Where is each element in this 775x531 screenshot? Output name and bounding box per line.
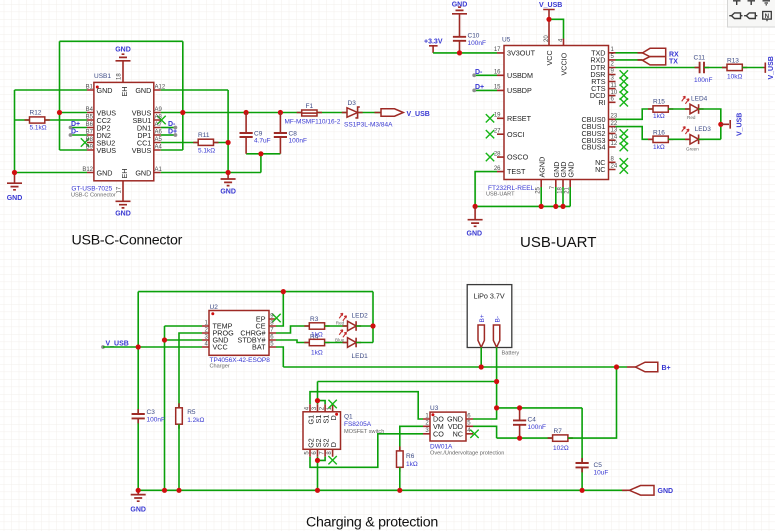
wire A9 VBUS rail (161, 112, 303, 114)
junction TEMP gnd rail (162, 488, 167, 493)
wire C5 column (581, 408, 583, 490)
svg-text:VCC: VCC (213, 343, 228, 352)
svg-text:D-: D- (475, 69, 483, 76)
svg-text:R6: R6 (406, 453, 415, 460)
wire B4 VBUS (60, 112, 88, 114)
svg-text:B+: B+ (479, 314, 486, 322)
wire D3 to V_USB flag (358, 112, 381, 114)
svg-text:10kΩ: 10kΩ (727, 74, 742, 81)
wire top V_USB rail (138, 291, 373, 293)
no-connect CBUS3 (620, 136, 628, 144)
wire LED3 cathode (699, 138, 721, 140)
svg-text:C10: C10 (468, 33, 480, 40)
svg-text:B8: B8 (86, 137, 94, 143)
svg-text:B4: B4 (86, 107, 94, 113)
svg-text:TX: TX (669, 59, 678, 66)
ground GND bottom of USB1 (116, 201, 131, 208)
svg-text:A4: A4 (155, 145, 163, 151)
resistor R16 (648, 138, 673, 140)
svg-text:C9: C9 (254, 130, 263, 137)
svg-text:R12: R12 (30, 110, 42, 117)
svg-text:USB1: USB1 (94, 73, 111, 80)
USB1 pin stubs left (87, 90, 94, 173)
wire LED4 to V_USB column (699, 109, 721, 139)
svg-text:MOSFET switch: MOSFET switch (344, 429, 384, 435)
wire B+ rail (283, 366, 627, 368)
wire CBUS1 to R16 (616, 127, 654, 140)
resistor R15 (648, 108, 673, 110)
toolbar icon vcc 2 (748, 1, 756, 5)
wire R15 to LED4 (668, 108, 690, 110)
wire A5 CC1 to R11 (161, 142, 228, 144)
wire U3 VDD to C4 bottom rail (473, 426, 497, 438)
svg-text:N: N (765, 13, 770, 20)
junction rail GND18 (560, 204, 565, 209)
junction cap rail (258, 151, 263, 156)
svg-text:A1: A1 (155, 167, 163, 173)
resistor R12 (25, 119, 50, 121)
wire B- rail (318, 381, 497, 383)
wire cap rail to A1 (260, 154, 262, 173)
svg-text:NC: NC (595, 165, 605, 174)
LED3 (685, 138, 704, 140)
wire A6 D+ (161, 134, 176, 136)
svg-text:VBUS: VBUS (132, 146, 152, 155)
svg-text:B12: B12 (82, 167, 93, 173)
svg-text:MF-MSMF110/16-2: MF-MSMF110/16-2 (285, 119, 341, 126)
junction S1 (315, 398, 320, 403)
wire left VBUS vertical (59, 41, 61, 150)
wire A12 GND (161, 89, 228, 91)
svg-text:12: 12 (611, 141, 618, 147)
resistor R7 (548, 437, 573, 439)
junction V_USB tap (718, 122, 723, 127)
wire CHRG# to R3 (276, 326, 309, 333)
toolbar icon gnd (763, 1, 771, 5)
battery pin B- (493, 325, 499, 347)
svg-text:R13: R13 (727, 57, 739, 64)
svg-text:18: 18 (557, 186, 563, 193)
svg-text:C3: C3 (147, 409, 156, 416)
svg-text:100nF: 100nF (694, 77, 712, 84)
fuse F1 (297, 112, 322, 114)
svg-text:C5: C5 (594, 462, 603, 469)
wire R16 to LED3 (668, 138, 690, 140)
U2 pin stubs right (269, 319, 276, 347)
U3 pin stubs left (423, 419, 430, 434)
svg-text:RESET: RESET (507, 114, 532, 123)
svg-text:4.7uF: 4.7uF (254, 138, 271, 145)
capacitor C9 (245, 113, 247, 154)
svg-text:10: 10 (611, 90, 618, 96)
toolbar icon netport1 (729, 13, 742, 19)
wire A7 D- (161, 127, 176, 129)
no-connect RTS (620, 77, 628, 85)
resistor R13 (722, 67, 747, 69)
svg-text:GND: GND (7, 195, 23, 202)
svg-text:GND: GND (566, 162, 575, 178)
wire GND21 pin down (569, 187, 571, 206)
IC U5 box (504, 46, 609, 180)
toolbar icon vcc 1 (733, 1, 741, 5)
svg-text:R7: R7 (554, 428, 563, 435)
junction C4 bottom (517, 436, 522, 441)
wire C4 top rail (497, 407, 582, 409)
wire A4 (161, 149, 183, 151)
svg-text:V_USB: V_USB (539, 2, 562, 9)
IC USB1 box (94, 82, 154, 180)
no-connect RESET (486, 114, 494, 122)
svg-text:EH: EH (120, 87, 129, 97)
wire LED cathode column (372, 292, 374, 343)
wire STDBY# to R4 (276, 340, 309, 343)
junction A9 (180, 110, 185, 115)
svg-text:VCC: VCC (545, 50, 554, 65)
svg-text:D+: D+ (168, 129, 177, 136)
svg-text:U3: U3 (430, 405, 439, 412)
junction C10 (457, 50, 462, 55)
svg-text:B-: B- (494, 316, 501, 323)
wire C4 bottom rail to R7 (497, 437, 553, 439)
wire B9 VBUS (60, 149, 88, 151)
junction CE rail (281, 289, 286, 294)
svg-text:A5: A5 (155, 137, 163, 143)
svg-text:26: 26 (494, 166, 501, 172)
svg-text:Red: Red (687, 115, 696, 120)
junction VCC (546, 17, 551, 22)
svg-text:Charging & protection: Charging & protection (306, 515, 438, 531)
svg-text:USB-C-Connector: USB-C-Connector (72, 233, 183, 249)
svg-text:USB-UART: USB-UART (520, 234, 596, 251)
svg-text:USB-C Connector: USB-C Connector (71, 193, 116, 199)
supply V_USB right rotated (764, 63, 766, 73)
svg-text:GND: GND (467, 230, 483, 237)
node D- left (69, 133, 73, 137)
node D- right (174, 126, 178, 130)
svg-text:CBUS4: CBUS4 (582, 143, 606, 152)
svg-text:U2: U2 (210, 304, 219, 311)
wire R6 to gnd rail (399, 467, 401, 490)
wire top VBUS loop (60, 40, 183, 42)
wire left GND vertical (14, 90, 16, 173)
Q1 pin stubs bottom (310, 449, 333, 457)
junction B+ flag (614, 364, 619, 369)
svg-text:20: 20 (544, 35, 550, 42)
svg-text:23: 23 (611, 114, 618, 120)
svg-text:GND: GND (130, 507, 146, 514)
IC Q1 box (303, 412, 341, 450)
junction R5 gnd rail (176, 488, 181, 493)
bus ripper RX/TX (638, 53, 643, 60)
no-connect D bottom (328, 456, 336, 464)
svg-text:Battery: Battery (502, 351, 520, 357)
svg-text:B9: B9 (86, 145, 94, 151)
junction rail AGND (539, 204, 544, 209)
svg-text:5.1kΩ: 5.1kΩ (30, 124, 47, 131)
resistor R11 (193, 142, 218, 144)
svg-text:D: D (329, 415, 338, 420)
svg-text:A8: A8 (155, 115, 163, 121)
svg-text:V_USB: V_USB (768, 56, 775, 79)
svg-text:19: 19 (494, 113, 501, 119)
node D+ USBDP (474, 89, 497, 91)
svg-text:17: 17 (116, 186, 122, 193)
junction C8 top (278, 110, 283, 115)
svg-text:GT-USB-7025: GT-USB-7025 (71, 185, 112, 192)
svg-text:1.2kΩ: 1.2kΩ (187, 417, 204, 424)
capacitor C4 (519, 408, 521, 438)
no-connect OSCI (486, 130, 494, 138)
junction S2 (315, 458, 320, 463)
svg-text:+3.3V: +3.3V (424, 39, 443, 46)
svg-text:27: 27 (494, 128, 501, 134)
svg-text:GND: GND (220, 189, 236, 196)
no-connect CTS (620, 84, 628, 92)
junction S2 gnd rail (315, 488, 320, 493)
wire V_USB to VCC (103, 346, 202, 348)
wire bottom gnd rail (475, 205, 570, 207)
svg-text:5.1kΩ: 5.1kΩ (198, 148, 215, 155)
svg-text:SS1P3L-M3/84A: SS1P3L-M3/84A (344, 121, 393, 128)
svg-text:Blue: Blue (335, 338, 345, 343)
wire DTR to C11 (616, 67, 699, 69)
junction TEMP-GND (162, 337, 167, 342)
svg-text:100nF: 100nF (468, 40, 486, 47)
svg-text:14: 14 (611, 134, 618, 140)
svg-text:A6: A6 (155, 130, 163, 136)
svg-text:B1: B1 (86, 85, 94, 91)
wire TEMP/GND vertical (164, 326, 166, 490)
junction LED2 column (370, 323, 375, 328)
battery pin B+ (478, 325, 484, 347)
svg-text:3V3OUT: 3V3OUT (507, 49, 536, 58)
svg-text:A7: A7 (155, 122, 163, 128)
node D+ left (69, 126, 73, 130)
no-connect D top (328, 400, 336, 408)
svg-text:GND: GND (135, 86, 151, 95)
U5 pin stubs right (609, 53, 616, 170)
svg-text:102Ω: 102Ω (553, 445, 569, 452)
svg-text:LED2: LED2 (352, 312, 369, 319)
svg-text:OSCO: OSCO (507, 153, 529, 162)
svg-text:LED1: LED1 (352, 353, 369, 360)
wire B- to U3 gnd column (496, 382, 498, 408)
wire right GND vertical (227, 90, 229, 173)
no-connect CBUS4 (620, 143, 628, 151)
svg-text:USBDM: USBDM (507, 71, 533, 80)
wire right VBUS vertical (A4-A9) (182, 41, 184, 150)
svg-text:100nF: 100nF (528, 424, 546, 431)
wire U3 GND to B- column (473, 408, 497, 419)
wire G1 to DO (310, 392, 423, 419)
no-connect B8 (81, 138, 89, 146)
LED2 (343, 325, 362, 327)
no-connect EP (272, 314, 280, 322)
wire battery B- down (496, 347, 498, 381)
wire C9-C8 bottom rail (246, 153, 280, 155)
wire S2 bracket (318, 457, 326, 491)
svg-text:A9: A9 (155, 107, 163, 113)
svg-text:FS8205A: FS8205A (344, 421, 372, 428)
svg-text:VCCIO: VCCIO (560, 52, 569, 75)
svg-text:TEST: TEST (507, 167, 526, 176)
svg-text:11: 11 (611, 83, 618, 89)
svg-text:A12: A12 (155, 85, 166, 91)
wire TEMP (165, 325, 203, 327)
svg-text:100nF: 100nF (289, 138, 307, 145)
svg-text:GND: GND (115, 47, 131, 54)
no-connect OSCO (486, 153, 494, 161)
net flag B+ (627, 366, 636, 368)
svg-text:V_USB: V_USB (737, 113, 744, 136)
junction R11 right (226, 140, 231, 145)
wire R7 to B+ column (568, 367, 617, 438)
svg-text:GND: GND (97, 86, 113, 95)
wire GND7 pin down (555, 187, 557, 206)
svg-text:R15: R15 (653, 98, 665, 105)
wire CE up to rail (276, 292, 283, 326)
resistor R4 (304, 342, 329, 344)
wire GND18 pin down (562, 187, 564, 206)
junction B4 (57, 110, 62, 115)
wire TXD (616, 52, 643, 54)
junction V_USB VCC (136, 344, 141, 349)
svg-text:B7: B7 (86, 130, 94, 136)
junction R6 gnd rail (397, 488, 402, 493)
ground GND right (A1) (227, 173, 229, 179)
svg-text:D+: D+ (71, 121, 80, 128)
ground GND below rail (474, 206, 476, 219)
wire B12 GND (15, 172, 88, 174)
pin 17 stub to bottom GND (122, 181, 124, 201)
svg-text:1kΩ: 1kΩ (406, 461, 418, 468)
wire S1 bracket (318, 382, 326, 405)
svg-text:EH: EH (120, 169, 129, 179)
svg-text:VBUS: VBUS (97, 146, 117, 155)
wire +3.3V to 3V3OUT (433, 52, 497, 54)
junction C5 gnd rail (580, 488, 585, 493)
svg-text:RX: RX (669, 51, 679, 58)
U2 pin stubs left (202, 326, 209, 347)
wire GND pin U2 (165, 339, 203, 341)
svg-text:D-: D- (168, 121, 176, 128)
svg-text:OSCI: OSCI (507, 130, 525, 139)
resistor R6 (399, 446, 401, 471)
wire LED2 to column (356, 325, 373, 327)
svg-text:R5: R5 (187, 409, 196, 416)
wire battery B+ down (480, 347, 482, 367)
battery box (467, 285, 512, 348)
no-connect CBUS2 (620, 129, 628, 137)
svg-text:15: 15 (494, 85, 501, 91)
svg-text:NC: NC (453, 429, 463, 438)
junction C9 top (244, 110, 249, 115)
ground GND top of USB1 (116, 54, 131, 61)
svg-text:LiPo 3.7V: LiPo 3.7V (474, 292, 505, 301)
svg-text:CO: CO (433, 429, 444, 438)
resistor R3 (304, 325, 329, 327)
wire R5 to gnd rail (178, 424, 180, 490)
wire G2 to CO (310, 434, 423, 468)
wire A1 GND (161, 172, 261, 174)
wire V_USB to VCC (548, 19, 550, 38)
svg-text:13: 13 (611, 128, 618, 134)
toolbar panel (728, 0, 775, 27)
svg-text:F1: F1 (306, 103, 314, 110)
svg-text:1kΩ: 1kΩ (653, 144, 665, 151)
svg-text:V_USB: V_USB (407, 111, 430, 118)
wire B1 GND (15, 89, 88, 91)
svg-text:B+: B+ (662, 365, 671, 372)
toolbar icon netport2 (744, 13, 757, 19)
ground GND left (14, 173, 16, 184)
capacitor C10 (453, 37, 466, 41)
resistor R5 (178, 403, 180, 428)
no-connect DCD (620, 91, 628, 99)
svg-text:R4: R4 (310, 334, 319, 341)
svg-text:16: 16 (494, 70, 501, 76)
U5 pin stubs top (549, 39, 564, 46)
svg-text:D+: D+ (475, 84, 484, 91)
wire V_USB to VCCIO (549, 19, 564, 38)
svg-text:GND: GND (135, 168, 151, 177)
net flag V_USB output (381, 109, 403, 116)
junction A1-GND (226, 170, 231, 175)
svg-text:AGND: AGND (537, 157, 546, 178)
svg-text:D3: D3 (348, 100, 357, 107)
svg-text:Charger: Charger (210, 363, 230, 369)
supply V_USB at LEDs (721, 120, 730, 129)
svg-text:C4: C4 (528, 416, 537, 423)
capacitor C5 (581, 458, 583, 472)
svg-text:USBDP: USBDP (507, 86, 532, 95)
no-connect A8 (157, 116, 165, 124)
svg-text:D-: D- (71, 129, 79, 136)
svg-text:LED4: LED4 (691, 96, 708, 103)
wire CBUS0 to R15 (616, 109, 654, 119)
svg-text:C11: C11 (694, 54, 706, 61)
svg-text:28: 28 (494, 151, 501, 157)
svg-text:GND: GND (97, 168, 113, 177)
svg-text:21: 21 (565, 186, 571, 193)
wire BAT to B+ rail (276, 347, 283, 367)
wire LED1 to column (356, 342, 373, 344)
svg-text:Green: Green (686, 146, 699, 151)
U5 pin stubs bottom (541, 180, 570, 188)
svg-text:1kΩ: 1kΩ (311, 350, 323, 357)
svg-text:RI: RI (598, 98, 605, 107)
svg-text:DW01A: DW01A (430, 443, 453, 450)
svg-text:Q1: Q1 (344, 413, 353, 420)
no-connect RI (620, 98, 628, 106)
svg-text:25: 25 (536, 186, 542, 193)
U3 pin stubs right (466, 419, 473, 434)
svg-text:U5: U5 (502, 37, 511, 44)
wire B6 D+ (71, 127, 88, 129)
no-connect DSR (620, 70, 628, 78)
wire TEST to gnd rail (475, 172, 497, 207)
svg-text:B6: B6 (86, 122, 94, 128)
junction rail GND7 (553, 204, 558, 209)
junction B- (494, 379, 499, 384)
svg-text:24: 24 (611, 164, 618, 170)
svg-text:B5: B5 (86, 115, 94, 121)
IC U2 box (209, 311, 269, 356)
svg-text:BAT: BAT (252, 343, 266, 352)
wire PROG to R5 (179, 333, 202, 408)
LED4 (685, 108, 704, 110)
svg-text:R3: R3 (310, 316, 319, 323)
